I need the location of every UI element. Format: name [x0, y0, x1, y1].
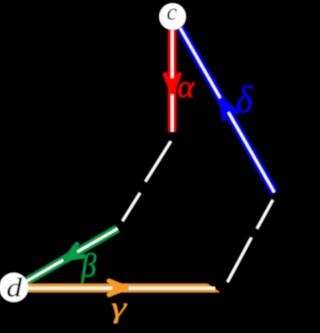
svg-text:d: d	[6, 273, 22, 303]
svg-text:α: α	[177, 69, 195, 104]
svg-text:δ: δ	[236, 78, 253, 121]
svg-text:c: c	[167, 0, 177, 25]
svg-text:β: β	[81, 247, 97, 284]
svg-text:γ: γ	[111, 291, 127, 323]
